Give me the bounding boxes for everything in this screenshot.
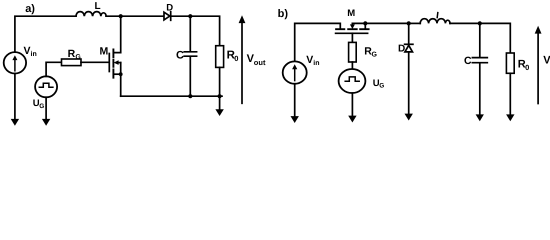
ground arrow a (rail): [219, 96, 221, 110]
ground arrow b (Vin): [291, 116, 299, 123]
svg-text:b): b): [278, 8, 289, 20]
wire a: UG bottom down: [45, 97, 47, 119]
wire a: cap branch lower: [189, 57, 191, 96]
wire b: Vin up and rail to MOSFET: [295, 23, 341, 61]
gate lead down: [351, 33, 353, 42]
svg-text:G: G: [379, 83, 384, 90]
ground arrow a (Vin): [11, 119, 19, 126]
inductor b: [420, 19, 450, 24]
svg-text:out: out: [254, 58, 266, 67]
wire a: R0 bottom to rail: [219, 67, 221, 96]
body/source vertical: [120, 63, 122, 97]
body lead with arrow: [117, 62, 121, 64]
body rail segment and right stub: [352, 23, 365, 29]
V arrow b: [537, 33, 539, 103]
wire b: rail to R0 corner: [480, 23, 511, 53]
ground arrow b (UG): [348, 116, 356, 123]
ground arrow b (R0): [506, 114, 514, 121]
diode D b (freewheeling): [408, 23, 410, 44]
inductor b tick label: [436, 13, 439, 18]
wire a: Vin down: [14, 74, 16, 120]
svg-text:V: V: [306, 54, 313, 66]
svg-text:in: in: [313, 59, 319, 67]
gate bar: [336, 32, 368, 34]
ground arrow b (C): [476, 114, 484, 121]
svg-text:V: V: [543, 55, 550, 67]
svg-text:C: C: [176, 49, 184, 61]
inductor L: [76, 12, 106, 17]
Vout arrow: [241, 23, 243, 104]
node cap b: [478, 21, 482, 25]
wire b: Vin down: [294, 84, 296, 117]
svg-text:V: V: [24, 45, 31, 57]
ground arrow a (UG): [42, 119, 50, 126]
wire a: UG top to RG: [46, 62, 61, 76]
pulse symbol UG b: [345, 77, 359, 81]
source UG b: [339, 69, 366, 93]
svg-text:G: G: [39, 103, 44, 110]
channel segments: [112, 49, 114, 77]
wire a: RG to gate: [81, 61, 109, 63]
source UG a: [35, 76, 57, 97]
svg-text:C: C: [464, 55, 472, 67]
drain lead: [113, 16, 120, 52]
body stub with down arrow: [351, 23, 353, 25]
node rail-C: [188, 94, 192, 98]
wire b: inductor to cap node: [450, 22, 480, 24]
wire b: cap branch upper: [479, 23, 481, 56]
svg-text:G: G: [372, 52, 378, 59]
wire b: diode node to inductor: [409, 22, 421, 24]
ground arrow b (diode): [405, 114, 413, 121]
gate bar: [108, 54, 110, 72]
svg-text:L: L: [95, 1, 101, 12]
wire b: cap branch lower: [479, 64, 481, 115]
resistor RG b: [349, 42, 357, 62]
wire b: RG to UG: [351, 62, 353, 69]
svg-text:0: 0: [525, 63, 529, 72]
wire top rail a (left segment): [15, 16, 76, 52]
node rail-R0: [218, 94, 222, 98]
svg-text:G: G: [75, 54, 81, 61]
pulse symbol UG a: [39, 83, 53, 87]
node after L (drain node): [119, 14, 123, 18]
wire a: cap branch upper: [189, 16, 191, 51]
source Vin b: [283, 61, 307, 83]
wire bottom rail a: [121, 95, 222, 97]
wire b: R0 down: [509, 73, 511, 114]
channel segments (horizontal): [336, 28, 369, 30]
svg-text:M: M: [100, 45, 109, 57]
svg-text:a): a): [25, 3, 35, 15]
node cap C top: [188, 14, 192, 18]
svg-text:R: R: [68, 48, 76, 60]
diode D: [164, 12, 170, 20]
svg-text:in: in: [31, 50, 37, 58]
wire a: inductor to diode: [106, 15, 163, 17]
svg-text:D: D: [398, 44, 405, 55]
resistor R0: [216, 46, 224, 68]
svg-text:D: D: [166, 3, 173, 14]
wire b: rail MOSFET to diode: [365, 22, 408, 24]
capacitor C b: [472, 58, 487, 63]
svg-text:0: 0: [234, 54, 238, 63]
node diode top: [407, 21, 411, 25]
source Vin a: [4, 52, 26, 73]
wire b: UG down: [351, 93, 353, 116]
source lead: [113, 73, 120, 75]
wire a: diode to right corner, down to R0: [171, 16, 220, 46]
resistor R0 b: [506, 53, 514, 73]
svg-text:M: M: [347, 8, 355, 19]
wire b: diode down: [408, 52, 410, 114]
resistor RG a: [62, 59, 82, 66]
capacitor C: [184, 52, 196, 56]
